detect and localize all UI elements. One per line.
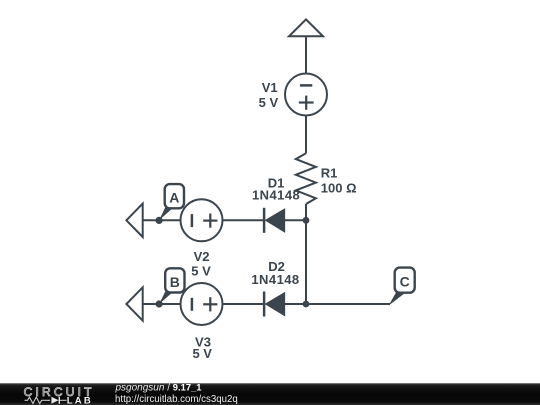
- wire R1 down to node row 2: [305, 204, 307, 304]
- svg-text:1N4148: 1N4148: [252, 188, 300, 203]
- wire V1 to R1: [305, 116, 307, 154]
- wire arrow to V2: [143, 219, 181, 221]
- node flag B: [159, 291, 173, 305]
- svg-text:psgongsun / 9.17_1: psgongsun / 9.17_1: [115, 382, 202, 394]
- svg-text:5 V: 5 V: [192, 346, 212, 361]
- wire D1 to node: [284, 219, 306, 221]
- voltage source V3: [181, 283, 223, 325]
- svg-text:A: A: [169, 190, 179, 206]
- CircuitLab logo wordmark: [24, 385, 95, 405]
- diode D2: [263, 292, 266, 317]
- wire D2 to node: [284, 303, 306, 305]
- junction dot flag A: [156, 217, 163, 224]
- node flag C: [389, 292, 406, 305]
- svg-text:V1: V1: [262, 80, 278, 95]
- VCC supply arrow (top): [289, 19, 323, 36]
- junction node row2: [303, 301, 310, 308]
- resistor R1: [296, 153, 316, 204]
- supply arrow left (row 1): [126, 204, 142, 237]
- wire V2 to D1: [223, 219, 264, 221]
- svg-text:100 Ω: 100 Ω: [321, 180, 357, 195]
- supply arrow left (row 2): [126, 287, 142, 320]
- voltage source V2: [181, 199, 223, 241]
- svg-text:V2: V2: [194, 249, 210, 264]
- svg-text:1N4148: 1N4148: [251, 272, 299, 287]
- voltage source V1: [285, 74, 327, 116]
- svg-text:B: B: [170, 274, 180, 290]
- svg-text:LAB: LAB: [67, 396, 93, 405]
- wire arrow to V3: [143, 303, 181, 305]
- svg-text:5 V: 5 V: [259, 95, 279, 110]
- footer bar: [0, 383, 540, 405]
- diode D1: [263, 208, 266, 233]
- wire node to flag C: [306, 303, 390, 305]
- svg-text:R1: R1: [321, 165, 338, 180]
- junction node row1: [303, 217, 310, 224]
- wire VCC to V1: [305, 36, 307, 74]
- svg-text:C: C: [400, 274, 410, 290]
- svg-text:5 V: 5 V: [191, 264, 211, 279]
- wire V3 to D2: [223, 303, 264, 305]
- junction dot flag B: [156, 300, 163, 307]
- node flag A: [159, 207, 173, 221]
- svg-text:http://circuitlab.com/cs3qu2q: http://circuitlab.com/cs3qu2q: [115, 394, 238, 405]
